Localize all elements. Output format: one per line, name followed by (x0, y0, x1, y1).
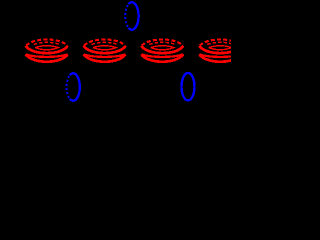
nodal ellipse N2 top-center (solid right arc) (129, 2, 139, 29)
orbital 1 upper-lobe ring: inner hole lens (35, 46, 58, 50)
orbital 1 upper-lobe ring: dashed far rim (26, 39, 67, 45)
orbital 3 lower-lobe crescent: upper edge (141, 54, 183, 57)
nodal ellipse N3 bottom-right (solid) (182, 73, 195, 100)
orbital 4 upper-lobe ring: inner hole lens (209, 46, 232, 50)
orbital 2 upper-lobe ring: solid near rim (84, 46, 126, 53)
nodal ellipse N2 top-center (dashed left arc) (125, 5, 128, 27)
orbital 1 upper-lobe ring: solid near rim (26, 46, 68, 53)
orbital 2 upper-lobe ring: dashed far rim (84, 39, 125, 45)
orbital 1 lower-lobe crescent: upper edge (26, 54, 68, 57)
orbital 3 lower-lobe crescent: lower edge (141, 54, 183, 61)
orbital 4 lower-lobe crescent: lower edge (199, 54, 241, 61)
orbital 1 lower-lobe crescent: lower edge (26, 54, 68, 61)
nodal ellipse N1 bottom-left (solid right arc) (70, 73, 80, 100)
orbital 3 upper-lobe ring: dashed hole far edge (149, 42, 175, 44)
orbital 2 upper-lobe ring: inner hole lens (93, 46, 116, 50)
orbital 4 upper-lobe ring: dashed hole far edge (207, 42, 233, 44)
nodal ellipse N1 bottom-left (dashed left arc) (67, 76, 70, 98)
orbital 4 lower-lobe crescent: upper edge (199, 54, 241, 57)
orbital 2 lower-lobe crescent: lower edge (84, 54, 126, 61)
orbital 3 upper-lobe ring: inner hole lens (151, 46, 174, 50)
orbital 4 upper-lobe ring: dashed far rim (200, 39, 241, 45)
orbital 3 upper-lobe ring: dashed far rim (142, 39, 183, 45)
orbital 2 lower-lobe crescent: upper edge (84, 54, 126, 57)
orbital 3 upper-lobe ring: solid near rim (141, 46, 183, 53)
orbital 4 upper-lobe ring: solid near rim (199, 46, 241, 53)
orbital 1 upper-lobe ring: dashed hole far edge (34, 42, 60, 44)
orbital 2 upper-lobe ring: dashed hole far edge (92, 42, 118, 44)
